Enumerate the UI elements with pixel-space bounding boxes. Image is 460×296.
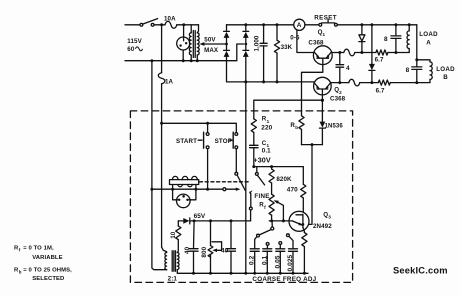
contact 0.2 (257, 234, 260, 237)
svg-text:f: f (264, 205, 266, 210)
capacitor 40 no2 (230, 221, 232, 249)
svg-text:8: 8 (406, 67, 410, 74)
node: start/stop feed (160, 122, 163, 125)
svg-text:RESET: RESET (314, 15, 337, 22)
resistor Rb branch (299, 116, 304, 130)
node: 40uF no1 (193, 219, 196, 222)
tilde for 60~ (135, 47, 142, 51)
svg-text:FINE: FINE (254, 193, 269, 200)
node: rail to primary feed A (150, 59, 153, 62)
svg-text:START: START (176, 138, 197, 145)
dashed enclosure box (130, 111, 352, 283)
svg-text:0.05: 0.05 (274, 255, 281, 268)
wire: Q1 emitter line right (332, 52, 344, 54)
svg-text:40: 40 (184, 246, 191, 254)
wire: Q2 emitter line right (331, 82, 349, 84)
capacitor 0.025 (289, 248, 298, 250)
wire: bus RESET to corner (337, 24, 417, 26)
contact 0.025 (287, 234, 290, 237)
svg-text:A: A (297, 22, 302, 29)
svg-text:2N492: 2N492 (313, 223, 332, 230)
relay terminals (172, 185, 174, 190)
svg-text:0-5: 0-5 (290, 35, 300, 42)
diode 65V (183, 218, 189, 224)
resistor 820K (271, 167, 273, 169)
relay contact fixed point (235, 172, 238, 175)
node: A at relay wire (150, 188, 153, 191)
capacitor 1000uF filter (263, 25, 265, 44)
svg-text:= 0 TO 25 OHMS,: = 0 TO 25 OHMS, (23, 268, 72, 274)
svg-text:65V: 65V (194, 213, 206, 220)
svg-text:+30V: +30V (253, 156, 270, 165)
transformer 2:1 secondary (177, 252, 179, 269)
bridge rectifier column 2 (245, 25, 247, 32)
bridge rectifier column 1 (226, 25, 228, 32)
svg-text:SELECTED: SELECTED (32, 276, 64, 282)
wire: hot drop B with 1A fuse (161, 25, 163, 73)
svg-text:B: B (443, 74, 448, 81)
svg-text:40: 40 (221, 247, 229, 254)
resistor 6.7 load A (376, 50, 388, 55)
ballast tube V1 (183, 26, 185, 37)
svg-text:1: 1 (323, 32, 326, 37)
relay contact blade (237, 175, 245, 191)
node: tube bottom on rail (182, 59, 185, 62)
svg-text:0.1: 0.1 (262, 148, 271, 155)
wire: B jog into 2:1 primary top (162, 247, 167, 252)
switch S1 line toggle (140, 23, 143, 26)
node: line tap for ballast tube (182, 23, 185, 26)
variac T1 primary winding (189, 33, 191, 55)
tube V2 thyratron (177, 194, 191, 208)
ammeter A 0-5 (294, 19, 305, 30)
switch RESET (319, 23, 322, 26)
fuse F1 10A (165, 21, 177, 28)
wire: bus corner down to LOAD B (416, 25, 418, 60)
node: winding bottoms on rail (190, 59, 193, 62)
contact circle on relay wire (223, 188, 226, 191)
diode D6 from bus crossing Q1 line (370, 23, 373, 26)
svg-text:MAX: MAX (204, 47, 219, 54)
svg-text:0.2: 0.2 (249, 255, 256, 265)
capacitor 4 coupling Q1-Q2 (338, 51, 341, 54)
svg-text:3: 3 (328, 215, 331, 220)
wire: DC+ bus (227, 24, 294, 26)
svg-text:STOP: STOP (215, 138, 233, 145)
svg-text:220: 220 (261, 125, 272, 132)
svg-text:800: 800 (201, 246, 208, 257)
variac T1 core (192, 31, 194, 58)
wire: Rb/1N536 bottom loop (302, 144, 323, 146)
svg-text:0.025: 0.025 (287, 254, 294, 271)
svg-text:VARIABLE: VARIABLE (32, 255, 62, 261)
contact 0.1 (266, 243, 269, 246)
svg-text:C368: C368 (308, 39, 324, 46)
capacitor 8 output B (416, 60, 418, 67)
node: 800 pot (209, 219, 212, 222)
inductor LOAD A (408, 23, 411, 26)
capacitor C1 0.1 (250, 144, 258, 146)
wire: switch to fuse (154, 24, 165, 26)
svg-text:60: 60 (127, 46, 135, 53)
wire: Q1 base down and left to Rb (302, 58, 323, 116)
wire: start stop top rail (162, 123, 237, 132)
svg-text:COARSE FREQ ADJ: COARSE FREQ ADJ (252, 276, 316, 283)
svg-text:115V: 115V (127, 38, 142, 45)
transistor Q2 C368 (314, 77, 332, 95)
selector blade to 0.2 (259, 230, 271, 235)
svg-text:2:1: 2:1 (168, 275, 178, 282)
svg-text:= 0 TO 1M,: = 0 TO 1M, (23, 246, 54, 252)
wire: pulse line down to Q3 base1 (303, 145, 312, 225)
diode D5 from bus to Q1 line (360, 23, 363, 26)
ammeter drop wire to Q1 line (297, 30, 314, 53)
wire: 65V rectifier line (178, 220, 183, 222)
svg-text:8: 8 (384, 36, 388, 43)
inductor LOAD B (417, 60, 430, 62)
variac tap arrow 50V MAX (202, 43, 226, 45)
capacitor 0.05 (276, 248, 285, 250)
wire: drop to variac winding top (197, 25, 198, 33)
transistor Q1 C368 (313, 46, 332, 65)
wire: AC neutral rail (125, 44, 244, 61)
node: col2 top on bus (244, 23, 247, 26)
svg-text:1N536: 1N536 (325, 124, 344, 130)
svg-text:6.7: 6.7 (375, 56, 384, 63)
node: col2 bottom on DC- rail (244, 80, 247, 83)
node: cap 8 bottom on Q1 line (394, 51, 397, 54)
fuse F3 on Q1 line (344, 49, 355, 56)
pushbutton STOP (230, 139, 232, 141)
svg-text:LOAD: LOAD (436, 66, 455, 73)
variac T1 secondary winding (197, 33, 199, 55)
svg-text:470: 470 (287, 186, 298, 193)
svg-text:1A: 1A (165, 78, 174, 85)
capacitor 40 no1 (193, 221, 196, 249)
node: line tap for variac primary (160, 23, 163, 26)
svg-text:820K: 820K (276, 176, 292, 183)
transformer 2:1 core (171, 251, 173, 271)
wire: neutral drop A to primary bottom (152, 61, 167, 270)
wire: oscillator emitter node (269, 220, 289, 222)
wire: Q2 base node to R1 chain (321, 89, 323, 100)
wire: 65V riser to Rf feed contact (250, 210, 252, 221)
resistor Q3 base1 to bus (303, 227, 305, 232)
svg-text:2: 2 (339, 90, 342, 95)
capacitor 0.1 (263, 248, 272, 250)
arrow to relay blade (226, 188, 237, 190)
resistor 10 ohm (177, 240, 178, 253)
svg-text:10: 10 (171, 231, 177, 238)
capacitor 8 output A (394, 23, 397, 26)
capacitor 0.2 (250, 248, 259, 250)
wire: oscillator ground bus (177, 272, 308, 274)
svg-text:SeekIC.com: SeekIC.com (393, 266, 448, 276)
svg-text:50V: 50V (204, 36, 216, 43)
wire: DC- drop to oscillator bus (245, 82, 247, 273)
wire: fuse to transformer with node (177, 24, 199, 26)
svg-text:33K: 33K (281, 44, 293, 51)
node: 40uF no2 (230, 219, 233, 222)
wire: bus ammeter to RESET (305, 24, 319, 26)
diode 1N536 branch (321, 100, 323, 121)
svg-text:f: f (19, 248, 21, 253)
wire: AC line top from source to switch (125, 24, 140, 26)
Rf wiper arrow (276, 201, 284, 221)
switch contact from +30V to Rf (256, 167, 258, 173)
wire: +30V rail (254, 166, 303, 168)
svg-text:0.1: 0.1 (261, 255, 268, 265)
mechanical link dashes from relay (200, 181, 251, 183)
selector wiper contact (271, 222, 273, 227)
node: diode D5 bottom (360, 51, 363, 54)
svg-text:b: b (295, 125, 298, 130)
fuse F4 on Q2 line (349, 79, 360, 86)
resistor 33K bleeder (276, 25, 278, 40)
resistor Rf FINE pot (269, 194, 274, 215)
svg-text:4: 4 (346, 65, 350, 72)
svg-text:b: b (19, 270, 22, 275)
relay K1 coil box (170, 180, 199, 185)
svg-text:1: 1 (267, 119, 270, 124)
svg-text:LOAD: LOAD (419, 31, 438, 38)
resistor 6.7 load B (378, 80, 390, 85)
svg-text:10A: 10A (164, 15, 176, 22)
contact 0.05 (279, 242, 282, 245)
svg-text:A: A (426, 40, 431, 47)
relay K1 coil loops (173, 176, 178, 179)
svg-text:6.7: 6.7 (376, 87, 385, 94)
fuse F2 1A (158, 73, 165, 84)
svg-text:C368: C368 (330, 96, 346, 103)
wire: relay common at y189 (152, 188, 223, 190)
svg-text:1,000: 1,000 (254, 35, 261, 51)
transistor Q3 2N492 UJT (289, 211, 309, 231)
transformer 2:1 primary (165, 252, 167, 269)
resistor R1 220 (251, 119, 256, 133)
pushbutton START (198, 139, 202, 141)
node: diode D6 bottom (370, 81, 373, 84)
rheostat 800 (210, 221, 212, 246)
resistor 470 (302, 167, 304, 185)
